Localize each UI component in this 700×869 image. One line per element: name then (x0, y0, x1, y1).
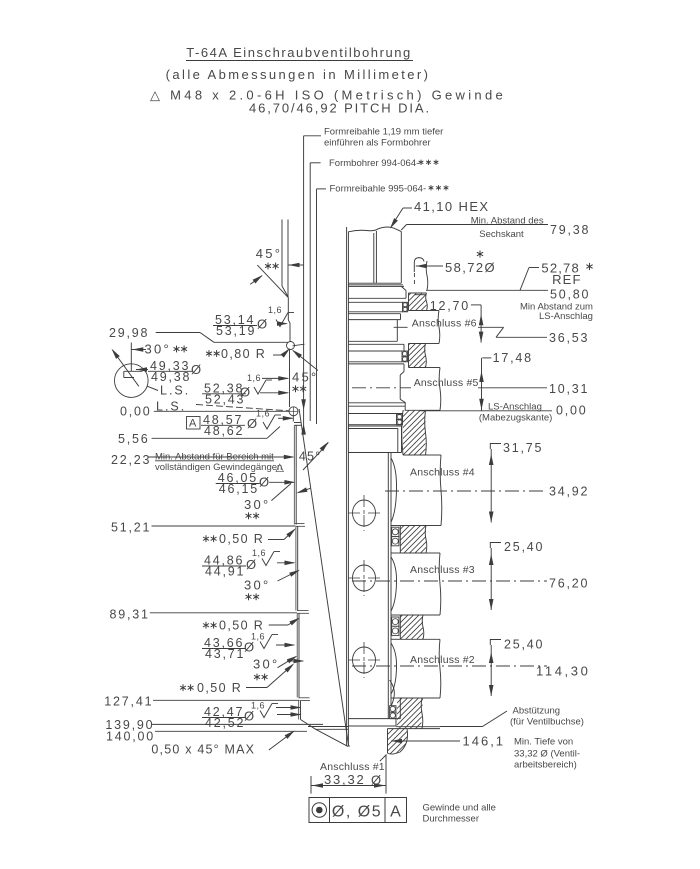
svg-text:LS-Anschlag: LS-Anschlag (488, 402, 542, 413)
svg-text:Ø: Ø (371, 773, 381, 788)
svg-text:Formreibahle 995-064-: Formreibahle 995-064- (330, 184, 427, 195)
svg-text:Ø: Ø (240, 385, 250, 400)
svg-text:Formreibahle 1,19 mm tiefer: Formreibahle 1,19 mm tiefer (324, 127, 443, 138)
svg-text:53,19: 53,19 (216, 324, 256, 338)
svg-text:Anschluss #6: Anschluss #6 (412, 317, 477, 329)
svg-text:22,23: 22,23 (111, 453, 151, 467)
svg-text:29,98: 29,98 (109, 326, 149, 340)
svg-text:41,10 HEX: 41,10 HEX (414, 199, 489, 214)
svg-text:30°: 30° (244, 578, 271, 593)
svg-text:30°: 30° (145, 342, 172, 357)
svg-text:30°: 30° (253, 657, 280, 672)
svg-text:34,92: 34,92 (549, 485, 589, 499)
svg-text:33,32: 33,32 (324, 772, 366, 787)
svg-text:Ø, Ø5: Ø, Ø5 (332, 804, 382, 821)
svg-text:Ø: Ø (259, 475, 269, 490)
svg-text:45°: 45° (299, 450, 322, 464)
svg-text:einführen als Formbohrer: einführen als Formbohrer (324, 138, 431, 149)
svg-text:58,72Ø: 58,72Ø (445, 260, 496, 275)
svg-text:89,31: 89,31 (110, 608, 150, 622)
svg-text:REF: REF (552, 272, 582, 287)
svg-text:46,70/46,92 PITCH DIA.: 46,70/46,92 PITCH DIA. (249, 101, 431, 116)
svg-text:Ø: Ø (246, 557, 256, 572)
svg-text:T-64A Einschraubventilbohrung: T-64A Einschraubventilbohrung (186, 45, 412, 60)
svg-text:1,6: 1,6 (247, 373, 261, 383)
svg-text:0,50 x 45° MAX: 0,50 x 45° MAX (151, 743, 255, 757)
svg-text:1,6: 1,6 (268, 305, 282, 315)
svg-text:25,40: 25,40 (504, 540, 544, 554)
svg-text:0,50 R: 0,50 R (219, 532, 264, 546)
svg-text:LS-Anschlag: LS-Anschlag (539, 311, 593, 322)
svg-text:0,00: 0,00 (556, 403, 588, 417)
svg-text:12,70: 12,70 (430, 299, 470, 313)
svg-text:Min. Abstand des: Min. Abstand des (471, 216, 544, 227)
svg-text:(Mabezugskante): (Mabezugskante) (479, 413, 552, 424)
svg-text:Formbohrer 994-064-: Formbohrer 994-064- (329, 158, 419, 169)
svg-text:44,91: 44,91 (205, 565, 245, 579)
svg-text:31,75: 31,75 (503, 441, 543, 455)
svg-text:1,6: 1,6 (256, 409, 270, 419)
svg-text:0,80 R: 0,80 R (221, 347, 266, 361)
svg-text:79,38: 79,38 (550, 223, 590, 237)
svg-text:43,71: 43,71 (205, 647, 245, 661)
svg-text:Durchmesser: Durchmesser (423, 814, 480, 825)
svg-text:Anschluss #4: Anschluss #4 (410, 467, 475, 479)
svg-text:Min. Tiefe von: Min. Tiefe von (514, 737, 573, 748)
svg-text:Ø: Ø (244, 709, 254, 724)
svg-text:Anschluss #3: Anschluss #3 (410, 564, 475, 576)
svg-text:17,48: 17,48 (493, 351, 533, 365)
svg-text:Gewinde und alle: Gewinde und alle (423, 803, 496, 814)
svg-text:0,50 R: 0,50 R (219, 619, 264, 633)
svg-text:45°: 45° (256, 246, 283, 261)
svg-text:49,38: 49,38 (151, 370, 191, 384)
svg-text:30°: 30° (244, 497, 271, 512)
svg-text:Abstützung: Abstützung (513, 706, 561, 717)
svg-text:Anschluss #2: Anschluss #2 (410, 654, 475, 666)
svg-text:Ø: Ø (244, 640, 254, 655)
svg-text:1,6: 1,6 (251, 632, 265, 642)
svg-text:33,32 Ø (Ventil-: 33,32 Ø (Ventil- (514, 749, 580, 760)
svg-text:1,6: 1,6 (251, 701, 265, 711)
svg-text:48,62: 48,62 (204, 424, 244, 438)
svg-text:45°: 45° (292, 369, 319, 384)
svg-text:51,21: 51,21 (111, 521, 151, 535)
svg-text:140,00: 140,00 (106, 730, 155, 744)
svg-text:A: A (189, 418, 197, 430)
svg-text:25,40: 25,40 (504, 638, 544, 652)
svg-text:Anschluss #5: Anschluss #5 (414, 377, 479, 389)
svg-text:Sechskant: Sechskant (479, 229, 524, 240)
svg-text:0,50 R: 0,50 R (197, 681, 242, 695)
svg-text:5,56: 5,56 (118, 432, 150, 446)
svg-text:Ø: Ø (257, 317, 267, 332)
svg-text:46,15: 46,15 (219, 482, 259, 496)
svg-text:(alle Abmessungen in Millimete: (alle Abmessungen in Millimeter) (166, 67, 431, 82)
svg-text:0,00: 0,00 (120, 405, 152, 419)
svg-text:1,6: 1,6 (252, 548, 266, 558)
svg-text:10,31: 10,31 (549, 382, 589, 396)
svg-text:114,30: 114,30 (536, 664, 590, 679)
svg-text:127,41: 127,41 (104, 695, 153, 709)
svg-text:50,80: 50,80 (550, 288, 590, 302)
svg-text:36,53: 36,53 (549, 331, 589, 345)
svg-text:L.S.: L.S. (160, 384, 190, 398)
svg-text:146,1: 146,1 (463, 734, 506, 749)
svg-text:△: △ (276, 462, 285, 474)
svg-text:42,52: 42,52 (205, 716, 245, 730)
svg-text:A: A (390, 804, 401, 821)
svg-text:76,20: 76,20 (549, 577, 589, 591)
svg-text:(für Ventilbuchse): (für Ventilbuchse) (510, 717, 584, 728)
svg-text:Ø: Ø (191, 362, 201, 377)
svg-text:arbeitsbereich): arbeitsbereich) (514, 760, 577, 771)
